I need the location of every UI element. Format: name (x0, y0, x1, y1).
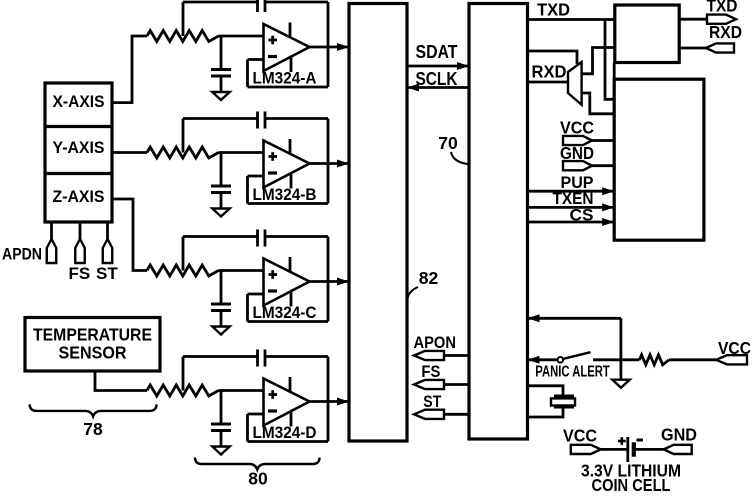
wire to inverting input (B) (248, 175, 264, 178)
wire serial block to RF module (613, 63, 616, 80)
wire minus-feedback left (A) (246, 60, 249, 88)
resistor network stage D (147, 385, 219, 396)
op-amp U-A triangle (264, 24, 310, 71)
minus sign (B) (268, 171, 277, 174)
output wire (C) (310, 280, 349, 283)
connector FS (414, 380, 444, 389)
shunt capacitor wire (A) (220, 36, 223, 70)
svg-text:GND: GND (661, 424, 697, 444)
leader line 82 (408, 287, 419, 299)
wire minus-feedback bottom (A) (248, 86, 329, 89)
wire TXD branch down to RF module (605, 20, 614, 100)
arrowhead TXEN (602, 203, 614, 211)
wire minus-feedback bottom (B) (248, 202, 329, 205)
wire RXD lower from MCU (528, 81, 569, 84)
svg-text:VCC: VCC (563, 426, 597, 446)
svg-text:APDN: APDN (2, 245, 42, 264)
wire switch into MCU (529, 358, 557, 361)
connector pin FS (75, 239, 85, 263)
plus sign (A) (269, 39, 278, 42)
op-amp U-B triangle (264, 141, 310, 188)
svg-text:RXD: RXD (709, 22, 742, 42)
plus sign (B) (269, 155, 278, 158)
wire capacitor to ground (B) (220, 193, 223, 209)
output arrowhead into ADC (A) (337, 43, 349, 51)
wire minus-feedback bottom (C) (248, 320, 329, 323)
svg-text:80: 80 (248, 469, 268, 489)
resistor network stage B (147, 147, 219, 158)
wire feedback down to output/minus (C) (327, 237, 330, 322)
wire to inverting input (D) (248, 413, 264, 416)
output wire (D) (310, 400, 349, 403)
wire top feedback left segment (D) (183, 355, 258, 358)
wire Z-AXIS to filter C (112, 199, 147, 271)
brace 80 (195, 458, 320, 470)
svg-text:78: 78 (83, 419, 103, 439)
wire to inverting input (C) (248, 293, 264, 296)
svg-text:TEMPERATURE: TEMPERATURE (33, 325, 152, 345)
shunt capacitor wire (C) (220, 271, 223, 305)
plus sign (C) (269, 273, 278, 276)
ground symbol (B) (212, 209, 229, 217)
wire TXEN (528, 206, 614, 209)
wire FS (444, 383, 470, 386)
capacitor CB feedback plates (256, 112, 259, 129)
accelerometer sensor box (X/Y/Z axis) (45, 83, 112, 222)
wire feedback down to output/minus (B) (327, 119, 330, 204)
shunt capacitor plates (D) (211, 423, 231, 426)
ADC block 82 (349, 4, 407, 442)
wire panic sense into MCU (529, 317, 621, 320)
wire panic node down (620, 318, 623, 379)
wire TXD MCU to serial block (528, 18, 615, 21)
svg-text:SCLK: SCLK (416, 69, 458, 89)
capacitor CD feedback plates (256, 350, 259, 367)
wire GND to module (592, 164, 614, 167)
plus sign (D) (269, 393, 278, 396)
svg-text:82: 82 (419, 268, 439, 288)
minus sign (A) (268, 55, 277, 58)
wire top feedback left segment (A) (183, 1, 258, 4)
wire capacitor to ground (A) (220, 76, 223, 92)
ground symbol (panic) (612, 380, 629, 388)
battery short plate - (632, 442, 636, 456)
serial interface block (615, 5, 679, 63)
shunt capacitor plates (C) (211, 303, 231, 306)
level shifter / driver symbol (568, 62, 582, 105)
X-AXIS / Y-AXIS divider (45, 125, 112, 128)
wire battery to GND (634, 448, 664, 451)
arrowhead SDAT (457, 62, 469, 70)
svg-text:LM324-C: LM324-C (253, 303, 317, 322)
wire RXD upper from MCU (528, 51, 578, 64)
wire RXD in (679, 47, 706, 50)
op-amp bottom power pin (D) (290, 412, 293, 427)
switch contact circle (558, 357, 564, 363)
connector APON (414, 351, 444, 360)
svg-text:COIN CELL: COIN CELL (592, 475, 671, 493)
minus sign (C) (268, 289, 277, 292)
svg-text:Y-AXIS: Y-AXIS (53, 138, 105, 157)
svg-text:TXD: TXD (707, 0, 738, 16)
wire feedback tap up (B) (182, 119, 185, 153)
svg-text:CS: CS (570, 206, 594, 225)
wire driver top output to serial block (582, 48, 615, 74)
connector pin APDN (47, 239, 57, 263)
wire VCC to module (592, 139, 614, 142)
crystal top plate (554, 395, 574, 398)
connector VCC (panic) (716, 355, 747, 364)
op-amp bottom power pin (B) (290, 174, 293, 189)
svg-text:TXD: TXD (537, 0, 570, 20)
shunt capacitor plates (A) (211, 68, 231, 71)
svg-text:ST: ST (423, 392, 442, 411)
connector RXD in (706, 43, 734, 52)
wire top feedback right segment (A) (265, 1, 328, 4)
op-amp top power pin (B) (289, 139, 292, 155)
brace 78 (30, 404, 157, 416)
minus sign (D) (268, 409, 277, 412)
battery long plate + (626, 437, 629, 462)
wire top feedback right segment (C) (265, 235, 328, 238)
svg-text:70: 70 (438, 133, 458, 153)
wire TXD out (679, 18, 708, 21)
wire switch to resistor node (593, 358, 640, 361)
op-amp U-C triangle (264, 259, 310, 306)
wire X-AXIS to filter A (112, 36, 147, 103)
wire feedback tap up (C) (182, 237, 185, 271)
arrowhead CS (602, 218, 614, 226)
wire feedback down to output/minus (A) (327, 2, 330, 87)
wire resistor to VCC (669, 358, 716, 361)
connector GND (battery) (664, 445, 692, 454)
svg-text:FS: FS (69, 264, 91, 283)
connector pin ST (103, 239, 113, 263)
wire capacitor to ground (C) (220, 311, 223, 327)
wire ST (444, 413, 470, 416)
wire top feedback right segment (B) (265, 117, 328, 120)
svg-text:VCC: VCC (560, 118, 594, 138)
wire resistor to op-amp + input (D) (219, 389, 264, 392)
svg-text:LM324-B: LM324-B (253, 185, 317, 204)
svg-text:FS: FS (421, 362, 440, 381)
op-amp bottom power pin (A) (290, 57, 293, 72)
wire VCC to battery (601, 448, 628, 451)
op-amp top power pin (D) (289, 377, 292, 393)
svg-text:ST: ST (96, 264, 118, 283)
svg-text:LM324-A: LM324-A (253, 69, 317, 88)
wire feedback down to output/minus (D) (327, 357, 330, 442)
svg-text:APON: APON (414, 333, 457, 352)
output arrowhead into ADC (C) (337, 278, 349, 286)
ground symbol (C) (212, 327, 229, 335)
connector VCC (module) (563, 136, 592, 145)
plus sign (battery) (618, 440, 626, 443)
wire to inverting input (A) (248, 58, 264, 61)
wire SDAT (407, 65, 468, 68)
output arrowhead into ADC (D) (337, 398, 349, 406)
microcontroller block 70 (469, 4, 528, 440)
svg-text:SENSOR: SENSOR (59, 343, 127, 363)
leader line 70 (451, 152, 468, 164)
svg-text:VCC: VCC (718, 338, 751, 358)
wire resistor to op-amp + input (B) (219, 151, 264, 154)
svg-text:SDAT: SDAT (416, 42, 458, 62)
capacitor CC feedback plates (256, 230, 259, 247)
wire minus-feedback bottom (D) (248, 440, 329, 443)
connector TXD out (707, 15, 736, 24)
op-amp top power pin (A) (289, 23, 292, 39)
svg-text:LM324-D: LM324-D (253, 423, 317, 442)
wire top feedback left segment (C) (183, 235, 258, 238)
crystal body (551, 398, 575, 405)
resistor network stage A (147, 31, 219, 42)
RF module block (614, 79, 704, 240)
connector ST (414, 410, 444, 419)
arrowhead panic sense (528, 314, 540, 322)
temperature sensor box (25, 318, 160, 372)
wire resistor to op-amp + input (C) (219, 269, 264, 272)
wire resistor to op-amp + input (A) (219, 35, 264, 38)
svg-text:Z-AXIS: Z-AXIS (53, 187, 105, 206)
wire Y-AXIS to filter B (112, 151, 147, 154)
Y-AXIS / Z-AXIS divider (45, 172, 112, 175)
wire CS (528, 221, 614, 224)
wire top feedback left segment (B) (183, 117, 258, 120)
svg-text:RXD: RXD (532, 62, 567, 82)
wire feedback tap up (A) (182, 2, 185, 36)
resistor (panic pull-up) (640, 355, 670, 365)
resistor network stage C (147, 265, 219, 276)
wire minus-feedback left (B) (246, 176, 249, 204)
connector VCC (battery) (571, 445, 601, 454)
arrowhead switch wire (528, 356, 540, 364)
wire crystal top (528, 386, 564, 396)
shunt capacitor plates (B) (211, 185, 231, 188)
op-amp top power pin (C) (289, 257, 292, 273)
connector GND (module) (563, 161, 592, 170)
pin stem FS (79, 222, 82, 239)
op-amp U-D triangle (264, 379, 310, 426)
output wire (B) (310, 162, 349, 165)
svg-text:PANIC ALERT: PANIC ALERT (535, 364, 610, 381)
switch arm (564, 352, 591, 359)
wire temperature sensor to filter D (95, 371, 147, 391)
capacitor CA feedback plates (256, 0, 259, 12)
shunt capacitor wire (D) (220, 391, 223, 425)
pin stem ST (106, 222, 109, 239)
crystal bottom plate (554, 406, 574, 409)
op-amp bottom power pin (C) (290, 292, 293, 307)
shunt capacitor wire (B) (220, 153, 223, 187)
wire minus-feedback left (C) (246, 294, 249, 322)
wire top feedback right segment (D) (265, 355, 328, 358)
svg-text:X-AXIS: X-AXIS (53, 92, 105, 111)
ground symbol (D) (212, 447, 229, 455)
wire crystal bottom (528, 407, 564, 417)
minus sign (battery) (637, 439, 644, 442)
output wire (A) (310, 46, 349, 49)
pin stem APDN (50, 222, 53, 239)
arrowhead SCLK (407, 84, 419, 92)
ground symbol (A) (212, 92, 229, 100)
arrowhead PUP (602, 187, 614, 195)
output arrowhead into ADC (B) (337, 160, 349, 168)
wire minus-feedback left (D) (246, 414, 249, 442)
wire feedback tap up (D) (182, 357, 185, 391)
wire APON (444, 354, 470, 357)
wire SCLK (408, 86, 469, 89)
wire PUP (528, 190, 614, 193)
wire capacitor to ground (D) (220, 431, 223, 447)
wire driver bottom output to RF module (582, 93, 615, 114)
